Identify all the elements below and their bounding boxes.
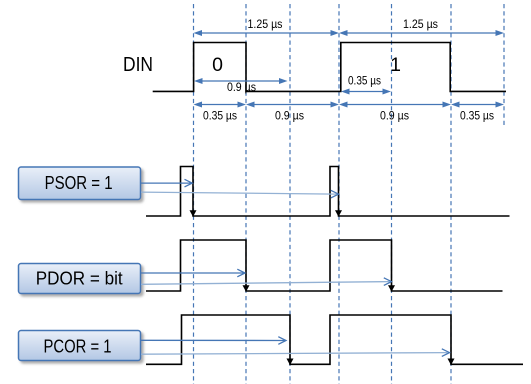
DIN waveform	[153, 43, 506, 92]
connector PSOR to first pulse	[141, 179, 192, 187]
dashed timeline gridline t0 (x=193.5)	[193, 4, 195, 384]
connector PDOR to first write point	[141, 269, 245, 277]
dimension arrow 1.25us bit1 period	[339, 30, 504, 36]
svg-text:PDOR = bit: PDOR = bit	[36, 268, 123, 289]
svg-text:0.35 µs: 0.35 µs	[348, 76, 381, 88]
svg-text:0.35 µs: 0.35 µs	[203, 111, 237, 123]
svg-text:1.25 µs: 1.25 µs	[403, 19, 438, 31]
callout box PCOR = 1	[19, 331, 141, 361]
PDOR write marker arrow (bit0)	[243, 285, 250, 292]
svg-text:PCOR = 1: PCOR = 1	[44, 336, 112, 357]
PCOR write marker arrow (bit1)	[448, 359, 455, 366]
svg-text:0: 0	[212, 54, 223, 76]
PSOR write marker arrow (bit1)	[335, 210, 342, 217]
dimension arrow 0.35us T1L	[451, 102, 504, 108]
dashed timeline gridline t6 end (x=504, short)	[503, 4, 505, 128]
svg-text:DIN: DIN	[123, 53, 153, 76]
dimension arrow 0.9us T1H	[339, 102, 451, 108]
dashed timeline gridline t3 bit boundary (x=339)	[338, 4, 340, 384]
PCOR write marker arrow (bit0)	[287, 359, 294, 366]
dashed timeline gridline t2 (x=290)	[289, 4, 291, 384]
svg-text:1: 1	[390, 54, 401, 76]
PCOR waveform	[146, 315, 523, 364]
svg-text:PSOR = 1: PSOR = 1	[45, 172, 113, 193]
dashed timeline gridline t1 (x=246)	[245, 4, 247, 384]
dimension arrow 0.9us inside bit0	[194, 78, 288, 84]
PSOR waveform	[146, 167, 510, 217]
dimension arrow 1.25us bit0 period	[194, 30, 340, 36]
PDOR write marker arrow (bit1)	[388, 285, 395, 292]
connector PSOR to second pulse	[141, 190, 339, 198]
dashed timeline gridline t5 (x=451)	[450, 4, 452, 384]
dimension arrow 0.9us T0L	[246, 102, 339, 108]
dimension arrow 0.35us T0H	[194, 102, 247, 108]
callout box PSOR = 1	[19, 167, 141, 200]
svg-text:1.25 µs: 1.25 µs	[248, 19, 283, 31]
svg-text:0.9 µs: 0.9 µs	[227, 82, 256, 94]
connector PDOR to second write point	[141, 278, 392, 286]
PSOR write marker arrow (bit0)	[190, 210, 197, 217]
PDOR waveform	[146, 240, 503, 291]
svg-text:0.9 µs: 0.9 µs	[275, 111, 304, 123]
connector PCOR to second write point	[141, 349, 450, 357]
callout box PDOR = bit	[19, 264, 141, 294]
svg-text:0.35 µs: 0.35 µs	[460, 111, 494, 123]
connector PCOR to first write point	[141, 337, 286, 345]
dashed timeline gridline t4 (x=391.5)	[391, 4, 393, 384]
svg-text:0.9 µs: 0.9 µs	[380, 111, 409, 123]
dimension arrow 0.35us inside bit1	[341, 89, 391, 95]
